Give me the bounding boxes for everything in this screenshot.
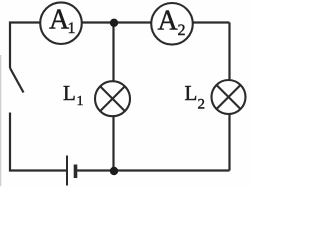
wire: middle branch through L1 <box>112 23 114 171</box>
scan edge artifact <box>0 55 2 186</box>
wire: bottom rail right of battery <box>77 169 230 171</box>
svg-text:1: 1 <box>68 20 76 37</box>
label L2 <box>185 81 206 112</box>
svg-text:A: A <box>158 6 179 37</box>
label L1 <box>63 81 84 109</box>
junction node bottom <box>110 167 118 175</box>
label A2 <box>158 6 186 40</box>
ammeter A2 circle <box>151 3 193 45</box>
wire: right side rail down through L2 to bottom <box>228 23 230 171</box>
switch S (open blade) <box>10 68 24 93</box>
svg-text:L: L <box>185 81 198 105</box>
junction node top <box>110 19 118 27</box>
svg-text:1: 1 <box>77 94 84 109</box>
svg-text:L: L <box>63 81 76 105</box>
wire: top rail from left corner to right corner <box>10 23 230 69</box>
label A1 <box>49 5 76 37</box>
svg-text:2: 2 <box>198 96 206 112</box>
wire: bottom rail left of battery with left lower rail <box>10 113 66 171</box>
battery: short thick plate <box>74 165 78 179</box>
lamp L1 circle with cross <box>95 81 130 116</box>
battery: long plate <box>66 156 68 186</box>
ammeter A1 circle <box>40 2 82 44</box>
svg-text:2: 2 <box>178 22 186 39</box>
lamp L2 circle with cross <box>212 80 246 114</box>
